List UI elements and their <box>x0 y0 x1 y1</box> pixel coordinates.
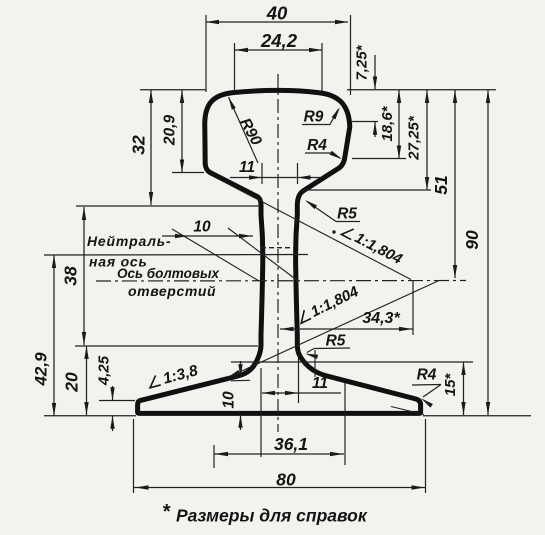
slope label ∠1:3,8 <box>147 362 200 392</box>
svg-text:38: 38 <box>61 266 81 286</box>
svg-text:отверстий: отверстий <box>128 283 216 299</box>
svg-text:80: 80 <box>276 470 296 490</box>
svg-text:R4: R4 <box>307 137 327 154</box>
svg-text:1:1,804: 1:1,804 <box>308 283 362 321</box>
svg-text:20: 20 <box>62 372 82 393</box>
svg-text:7,25*: 7,25* <box>354 44 371 80</box>
dimension 20 <box>86 346 88 415</box>
neutral axis line <box>44 254 308 257</box>
svg-text:34,3*: 34,3* <box>362 310 400 327</box>
svg-text:18,6*: 18,6* <box>379 105 396 141</box>
svg-text:15*: 15* <box>442 373 459 397</box>
dimension 27,25* <box>426 90 428 190</box>
svg-text:51: 51 <box>431 175 451 194</box>
foot top reference line <box>75 345 258 347</box>
dimension 36,1 <box>214 453 344 455</box>
svg-text:R9: R9 <box>304 109 324 126</box>
svg-text:Нейтраль-: Нейтраль- <box>87 233 171 249</box>
dimension 10 (foot thickness at 36,1 point) <box>240 361 242 377</box>
dimension 51 (top to bolt hole axis) <box>454 90 456 278</box>
dimension 11 (web width at top) <box>230 177 322 179</box>
web face slope line left <box>172 229 259 281</box>
foot slope thin extension at right tip <box>391 407 424 415</box>
svg-text:90: 90 <box>462 230 482 250</box>
svg-text:1:3,8: 1:3,8 <box>161 362 200 388</box>
svg-text:10: 10 <box>193 219 211 236</box>
web face slope line right <box>228 228 298 281</box>
dimension 32 <box>150 90 152 205</box>
svg-text:11: 11 <box>239 159 255 176</box>
bolt hole axis line, dash-dot <box>96 280 466 283</box>
svg-text:R4: R4 <box>417 367 437 384</box>
svg-text:R90: R90 <box>236 115 265 148</box>
extension line at fillet tangent point <box>314 350 316 377</box>
svg-text:Размеры для справок: Размеры для справок <box>176 506 368 526</box>
slope line 1:1,804 (lower), leader arrow onto foot slope <box>228 281 440 378</box>
svg-text:*: * <box>162 501 171 523</box>
rail profile outline (Р18 rail cross-section) <box>138 90 421 413</box>
svg-text:R5: R5 <box>326 333 346 350</box>
svg-text:27,25*: 27,25* <box>406 115 423 161</box>
vertical centerline (axis of symmetry) <box>277 74 279 432</box>
head top extension line left <box>140 89 206 91</box>
foot bottom extension line left <box>44 415 136 417</box>
head bottom reference line <box>76 205 260 207</box>
hidden dashed line in web <box>261 247 294 249</box>
20,9 reference line <box>172 172 204 174</box>
dimension 4,25 (foot edge thickness) <box>112 386 114 400</box>
R90 label and leader <box>229 97 259 163</box>
svg-text:11: 11 <box>312 375 328 392</box>
dimension 11 (web width at bottom) <box>262 392 341 394</box>
svg-text:24,2: 24,2 <box>260 30 298 51</box>
dimension 40 (head width) <box>206 21 348 23</box>
foot bottom extension line right <box>423 415 531 417</box>
dimension 20,9 <box>181 90 183 173</box>
slope label ∠1:1,804 (lower) <box>296 283 362 327</box>
dimension 10 (web width at middle) <box>162 235 253 237</box>
head top extension line right <box>347 89 496 91</box>
dimension 18,6* <box>398 90 400 159</box>
slope label ∠1:1,804 (upper) <box>340 223 406 268</box>
svg-text:42,9: 42,9 <box>32 352 51 387</box>
svg-text:40: 40 <box>266 3 288 24</box>
dimension 24,2 (head top width) <box>235 49 322 51</box>
svg-text:10: 10 <box>221 391 238 409</box>
svg-text:20,9: 20,9 <box>162 115 179 147</box>
svg-text:R5: R5 <box>337 206 357 223</box>
15* upper reference line <box>231 361 473 363</box>
svg-text:32: 32 <box>129 135 149 155</box>
dimension 80 (foot width) <box>134 487 426 489</box>
slope line 1:1,804 (upper) <box>230 185 411 280</box>
dimension 38 <box>83 207 85 345</box>
svg-text:36,1: 36,1 <box>274 434 308 454</box>
dimension 42,9 <box>53 255 55 416</box>
dimension 90 (full rail height) <box>487 90 489 415</box>
dimension 15* <box>463 362 465 415</box>
dimension 34,3* <box>280 328 413 330</box>
dimension 7,25* <box>374 55 376 90</box>
svg-text:Ось болтовых: Ось болтовых <box>117 266 220 281</box>
svg-text:4,25: 4,25 <box>96 355 113 386</box>
